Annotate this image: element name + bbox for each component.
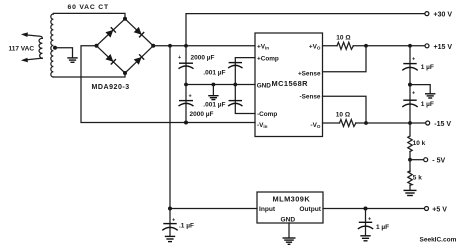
regulator MLM309K box [257, 192, 323, 223]
node +raw / MLM309K feed [168, 44, 172, 48]
svg-text:117 VAC: 117 VAC [9, 45, 35, 52]
bridge rectifier MDA920-3 diamond [97, 19, 154, 73]
svg-text:+: + [412, 57, 415, 63]
wire +VO row [323, 45, 338, 47]
node -15V sense [364, 121, 368, 125]
svg-text:-Sense: -Sense [300, 94, 321, 101]
bridge diode top-right (anode top vertex, cathode right) [134, 27, 144, 37]
svg-text:+15 V: +15 V [434, 44, 453, 51]
terminal -5V [424, 158, 428, 162]
wire to +15V terminal [353, 45, 425, 47]
wire -15V to 10k [409, 123, 411, 136]
wire -raw rail from bridge left to -Vin [81, 46, 255, 123]
capacitor C3 .001 µF (upper comp) [235, 58, 255, 85]
ground (C8) [360, 236, 370, 241]
wire 10k to -5V node [409, 152, 411, 160]
svg-text:SeekIC.com: SeekIC.com [420, 237, 457, 244]
node -15V divider [408, 121, 412, 125]
svg-text:10 Ω: 10 Ω [336, 112, 350, 119]
capacitor C1 2000 µF (top filter) [185, 46, 187, 85]
svg-text:+30 V: +30 V [434, 11, 453, 18]
bridge diode bottom-left (anode left vertex, cathode bottom) [105, 54, 115, 64]
capacitor C8 1 µF (+5V) [365, 209, 367, 236]
svg-text:Output: Output [299, 206, 321, 213]
capacitor C5 1 µF (+15V) [409, 46, 411, 85]
transformer T1 secondary winding (60 VAC CT) [51, 14, 53, 77]
resistor R3 10 k [408, 136, 412, 152]
ground (mid rail) [212, 85, 214, 96]
svg-text:1 µF: 1 µF [421, 64, 434, 71]
bridge diode top-left (anode left vertex, cathode top) [105, 27, 115, 37]
node +5V cap [364, 207, 368, 211]
svg-text:10 k: 10 k [413, 140, 426, 147]
ground (between 1 µF caps) [425, 94, 435, 98]
terminal +30 V [425, 12, 429, 16]
wire -5V node to 5k [409, 160, 411, 172]
capacitor C4 .001 µF (lower comp) [235, 85, 255, 114]
wire primary top lead [27, 35, 43, 38]
node MLM309K input / C7 [168, 207, 172, 211]
node bridge left [95, 44, 99, 48]
svg-text:- 5V: - 5V [432, 158, 445, 165]
svg-text:10 Ω: 10 Ω [336, 35, 350, 42]
wire to ground stub [410, 85, 430, 94]
wire primary bottom lead [27, 58, 43, 60]
wire mid ground rail to GND pin [186, 84, 255, 86]
bridge diode bottom-right (anode bottom vertex, cathode right) [134, 54, 144, 64]
resistor R2 10 Ω [340, 120, 356, 127]
svg-text:2000 µF: 2000 µF [190, 111, 214, 118]
svg-text:MDA920-3: MDA920-3 [92, 84, 130, 91]
svg-text:60 VAC CT: 60 VAC CT [68, 4, 109, 11]
svg-text:-15 V: -15 V [434, 121, 451, 128]
svg-text:+Comp: +Comp [257, 56, 279, 63]
svg-text:.1 µF: .1 µF [179, 223, 194, 230]
svg-text:1 µF: 1 µF [421, 101, 434, 108]
terminal +5 V [425, 207, 429, 211]
wire +raw down to MLM309K input [170, 46, 257, 209]
svg-text:+Sense: +Sense [298, 71, 321, 78]
wire -Sense feedback [323, 96, 367, 123]
svg-text:+: + [178, 55, 181, 61]
capacitor C6 1 µF (-15V) [409, 85, 411, 123]
svg-text:5 k: 5 k [413, 174, 422, 181]
svg-text:1 µF: 1 µF [376, 224, 389, 231]
svg-text:GND: GND [257, 82, 272, 89]
node +15V sense [364, 44, 368, 48]
wire secondary bottom to bridge bottom [53, 73, 125, 77]
ground (5 k) [404, 190, 417, 195]
svg-text:.001 µF: .001 µF [203, 102, 225, 109]
wire to -5V terminal [410, 159, 423, 161]
capacitor C7 .1 µF (MLM309K input) [169, 209, 171, 236]
node mid rail at comp caps [233, 83, 237, 87]
wire -VO row [323, 122, 340, 124]
resistor R4 5 k [408, 171, 412, 185]
node bridge bottom [123, 71, 127, 75]
node -raw / C2 [184, 121, 188, 125]
terminal +15 V [425, 44, 429, 48]
node mid rail at ground [212, 83, 216, 87]
svg-text:+: + [412, 91, 415, 97]
node +raw / C1 and +30V riser [184, 44, 188, 48]
resistor R1 10 Ω [337, 42, 353, 49]
svg-text:MLM309K: MLM309K [273, 195, 311, 204]
svg-text:+: + [368, 216, 371, 222]
wire center tap to ground [55, 48, 73, 58]
wire +raw rail to +Vin [153, 45, 255, 47]
wire MLM309K output to +5V [323, 208, 424, 210]
wire 5k to ground [409, 185, 411, 190]
node +15V cap [408, 44, 412, 48]
ac arrow upper [21, 32, 28, 37]
ground (MLM309K) [283, 238, 296, 244]
transformer T1 primary winding [39, 38, 42, 58]
svg-text:+: + [189, 94, 192, 100]
node bridge top [123, 17, 127, 21]
node center tap [53, 46, 57, 50]
svg-text:+: + [172, 218, 175, 224]
ground (center tap) [67, 58, 77, 62]
wire +Sense feedback [323, 46, 367, 72]
capacitor C2 2000 µF (bottom filter) [185, 85, 187, 123]
wire to -15V terminal [356, 122, 426, 124]
ac arrow lower [21, 58, 28, 63]
node mid rail at C1 [184, 83, 188, 87]
svg-text:Input: Input [259, 206, 276, 213]
node between C5 C6 [408, 83, 412, 87]
wire MLM309K gnd pin [288, 223, 290, 238]
ground (C7) [165, 236, 175, 241]
svg-text:MC1568R: MC1568R [272, 79, 309, 88]
node -5V tap [408, 158, 412, 162]
svg-text:2000 µF: 2000 µF [191, 55, 215, 62]
wire secondary top to bridge top [53, 13, 125, 18]
node bridge right [151, 44, 155, 48]
svg-text:-Comp: -Comp [257, 111, 277, 118]
wire riser to +30V line [186, 14, 425, 46]
svg-text:+5 V: +5 V [432, 206, 447, 213]
svg-text:.001 µF: .001 µF [203, 69, 225, 76]
svg-text:GND: GND [281, 217, 296, 224]
regulator IC MC1568R box [255, 33, 323, 137]
terminal -15 V [426, 121, 430, 125]
